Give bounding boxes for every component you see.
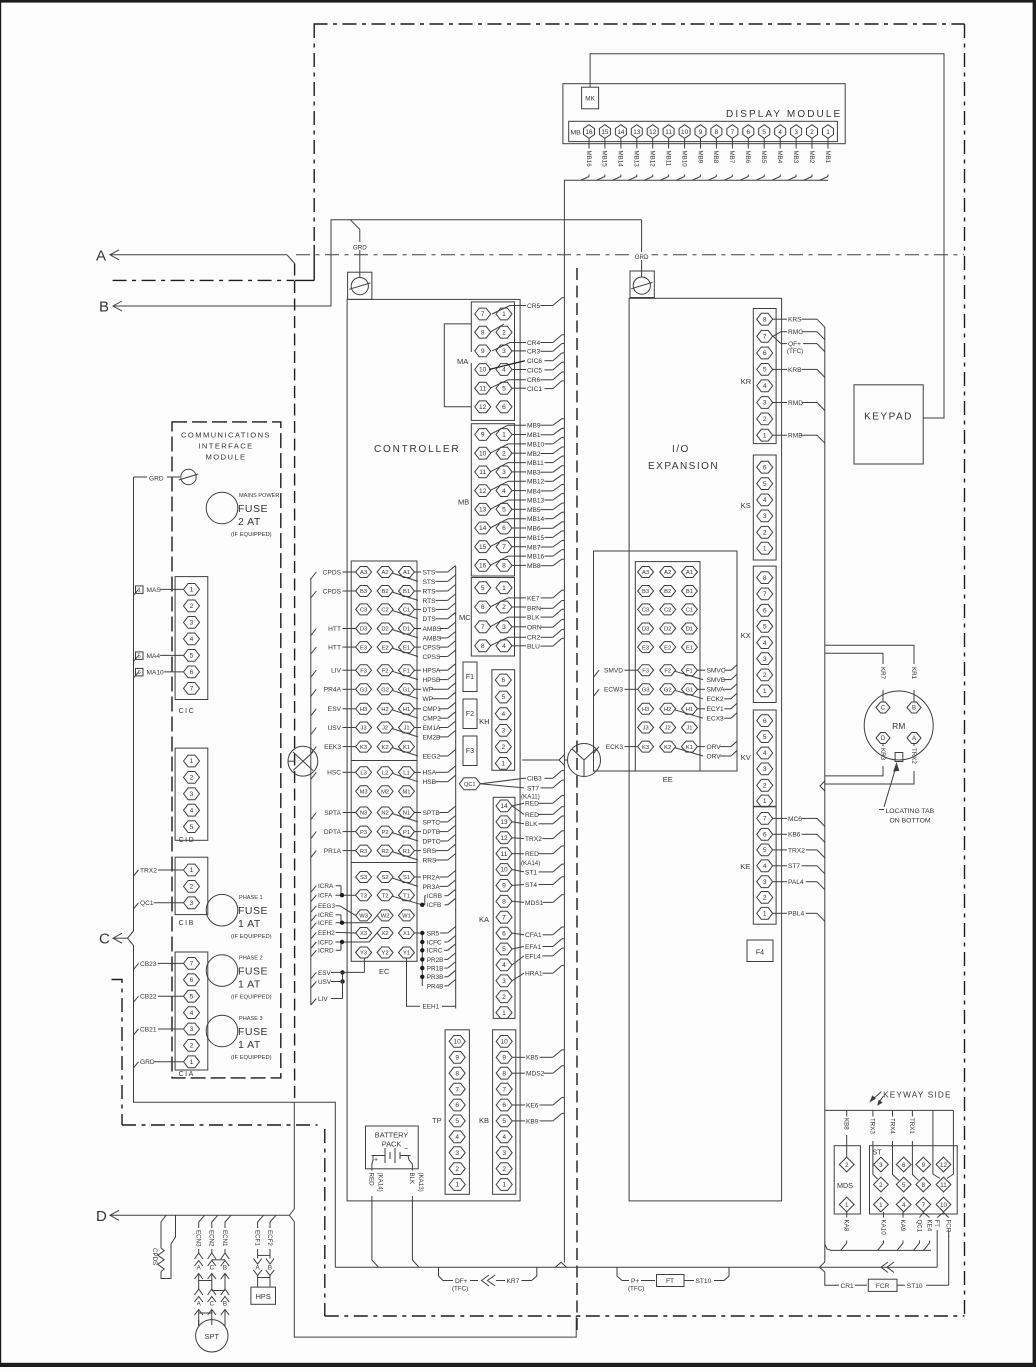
wire: right bus lower to CR1 — [825, 1272, 837, 1285]
wire: C junction upper diagonal — [128, 931, 134, 938]
pin EC-C1 — [399, 604, 415, 615]
svg-text:H1: H1 — [403, 707, 410, 713]
pin MB-10 — [679, 125, 690, 139]
pin KB-3 — [496, 1147, 512, 1159]
svg-text:5: 5 — [763, 847, 767, 854]
svg-text:EEH2: EEH2 — [318, 930, 335, 937]
pin KH-5 — [495, 691, 511, 703]
pin KR-1 — [757, 429, 773, 441]
wire MA8 diag — [490, 324, 504, 332]
svg-text:TRX3: TRX3 — [869, 1118, 876, 1134]
connector EE outline — [635, 562, 700, 771]
loop wire around ST-12 to ST-11 — [932, 1110, 934, 1174]
wire: phantom boundary horizontal near A arrow — [113, 279, 294, 281]
svg-text:9: 9 — [502, 1055, 506, 1062]
svg-text:P2: P2 — [382, 830, 389, 836]
wire: A arrow lead — [110, 254, 287, 256]
svg-text:E2: E2 — [382, 645, 389, 651]
svg-text:EEG2: EEG2 — [423, 753, 441, 760]
wire: outer enclosure dashed bottom edge — [325, 1315, 965, 1317]
wire KR7 to RMC diagonal — [773, 332, 781, 337]
svg-text:ICFA: ICFA — [318, 893, 333, 900]
svg-text:KR: KR — [741, 377, 752, 386]
svg-text:H3: H3 — [360, 707, 367, 713]
svg-text:FUSE: FUSE — [238, 1026, 268, 1038]
pin KR-6 — [757, 347, 773, 359]
pin MB-12 — [475, 485, 491, 497]
svg-text:CID: CID — [179, 837, 196, 844]
svg-text:3: 3 — [190, 1026, 194, 1033]
svg-text:14: 14 — [479, 525, 487, 532]
svg-text:8: 8 — [481, 643, 485, 650]
wire EC E2 diagonal to CPSS — [392, 648, 418, 656]
pin KE-7 — [757, 813, 773, 825]
pin KE-4 — [757, 860, 773, 872]
svg-text:1 AT: 1 AT — [238, 918, 261, 930]
pin CID-3 — [184, 788, 200, 800]
svg-text:2: 2 — [763, 672, 767, 679]
svg-text:PHASE 3: PHASE 3 — [239, 1016, 263, 1022]
svg-text:3: 3 — [763, 879, 767, 886]
svg-text:S3: S3 — [360, 875, 367, 881]
pin EC-W3 — [356, 910, 372, 921]
wire/label HTT (EC E3) — [311, 647, 317, 654]
pin MB-16 — [475, 560, 491, 572]
wire: CIM left bus upper (GRD to C) — [133, 477, 135, 931]
pin KA-9 — [496, 880, 512, 892]
svg-text:KRS: KRS — [788, 317, 802, 324]
pin EE-C1 — [681, 604, 697, 615]
pin MB-4 — [775, 125, 786, 139]
wires MC pins to labels KE7/BRN/BLK/ORN/CR2/BLU — [490, 598, 508, 607]
pin EC-X3 — [356, 928, 372, 939]
svg-text:KB6: KB6 — [788, 832, 801, 839]
svg-text:10: 10 — [681, 129, 689, 136]
svg-text:FT: FT — [666, 1278, 674, 1285]
svg-text:5: 5 — [502, 507, 506, 514]
svg-text:F1: F1 — [686, 668, 693, 674]
RM locating tab — [895, 753, 903, 762]
svg-text:−: − — [404, 1146, 408, 1153]
wires/labels SMVD ECW3 ECK3 (EE left) — [594, 670, 600, 677]
pin CIA-4 — [184, 1007, 200, 1019]
wire: outer enclosure dashed top edge — [314, 23, 965, 25]
wire/label USV (EC J3) — [311, 728, 317, 735]
svg-text:6: 6 — [763, 832, 767, 839]
pin RM-A — [907, 733, 921, 744]
pin KS-1 — [757, 542, 773, 554]
wire MB5 diagonal to bus — [756, 177, 765, 181]
svg-text:2: 2 — [763, 530, 767, 537]
connector CIC outline — [175, 577, 208, 700]
svg-text:ICFE: ICFE — [318, 920, 333, 927]
pin KB-4 — [496, 1131, 512, 1143]
svg-text:9: 9 — [699, 129, 703, 136]
svg-text:CB22: CB22 — [140, 994, 157, 1001]
svg-text:C: C — [210, 1265, 215, 1272]
pin KX-2 — [757, 669, 773, 681]
svg-text:P1: P1 — [403, 830, 410, 836]
pin TP-9 — [449, 1051, 465, 1063]
pin EC-P3 — [356, 826, 372, 837]
svg-text:K2: K2 — [664, 745, 671, 751]
svg-text:F1: F1 — [403, 668, 410, 674]
pin EC-H2 — [377, 703, 393, 714]
svg-text:RMB: RMB — [788, 433, 803, 440]
border frame right — [1033, 0, 1036, 1367]
fuse F1 — [463, 662, 477, 692]
pin ST-4 — [896, 1197, 911, 1212]
svg-text:L3: L3 — [360, 771, 366, 777]
pin KR-8 — [757, 313, 773, 325]
svg-text:3: 3 — [502, 624, 506, 631]
svg-text:BRN: BRN — [527, 606, 541, 613]
pin EC-R2 — [377, 845, 393, 856]
pin CID-1 — [184, 755, 200, 767]
pin EC-P2 — [377, 826, 393, 837]
pin EC-C2 — [377, 604, 393, 615]
svg-text:1: 1 — [763, 432, 767, 439]
pin EC-K1 — [399, 741, 415, 752]
wire MB14 diagonal to bus — [612, 177, 621, 181]
svg-text:11: 11 — [940, 1182, 947, 1189]
svg-text:11: 11 — [665, 129, 672, 136]
svg-text:RM: RM — [892, 721, 905, 731]
pin EE-D1 — [681, 623, 697, 634]
pin KV-3 — [757, 763, 773, 775]
pin EC-F3 — [356, 665, 372, 676]
svg-text:MDS1: MDS1 — [525, 900, 544, 907]
wire/label ECN3 — [199, 1215, 205, 1228]
svg-text:F4: F4 — [756, 950, 764, 957]
svg-text:1: 1 — [502, 311, 506, 318]
svg-text:7: 7 — [763, 334, 767, 341]
svg-text:SMVC: SMVC — [707, 668, 726, 675]
svg-text:BLK: BLK — [525, 821, 538, 828]
pin EE-F3 — [638, 665, 654, 676]
pin KA-12 — [496, 832, 512, 844]
svg-text:12: 12 — [940, 1162, 947, 1169]
hook ICRE to ICFE — [340, 915, 342, 923]
pin TP-3 — [449, 1147, 465, 1159]
pin MB-9 — [475, 429, 491, 441]
pin EC-J1 — [399, 722, 415, 733]
connector KS outline — [753, 455, 776, 560]
wire: bottom horizontal bus — [335, 1266, 937, 1268]
svg-text:C1: C1 — [686, 608, 693, 614]
svg-text:5: 5 — [455, 1118, 459, 1125]
svg-text:5: 5 — [138, 654, 141, 660]
svg-text:D3: D3 — [642, 627, 649, 633]
tie C-B mid — [212, 1290, 225, 1292]
communications interface module dashed outline — [172, 422, 281, 1078]
svg-text:1: 1 — [138, 588, 141, 594]
svg-text:ECN2: ECN2 — [208, 1230, 215, 1247]
svg-text:MA4: MA4 — [147, 653, 161, 660]
wire: A line jog diagonal — [287, 255, 295, 264]
svg-text:CR2: CR2 — [527, 635, 541, 642]
svg-text:6: 6 — [190, 669, 194, 676]
pin EE-G1 — [681, 684, 697, 695]
pin ST-6 — [896, 1157, 911, 1172]
wire: phantom boundary corner lower-left — [112, 980, 123, 1126]
pin KA-8 — [496, 895, 512, 907]
svg-text:MB11: MB11 — [527, 460, 544, 467]
pin ST-8 — [916, 1177, 931, 1192]
wire: phantom line A across page — [296, 254, 964, 256]
svg-text:4: 4 — [763, 383, 767, 390]
chevron arrow on DF+ wire — [482, 1275, 490, 1286]
pin KA-2 — [496, 991, 512, 1003]
svg-text:6: 6 — [763, 718, 767, 725]
svg-text:BATTERY: BATTERY — [375, 1131, 408, 1140]
svg-text:J3: J3 — [361, 726, 367, 732]
wire EC G1 to WP — [415, 688, 422, 690]
wire MB13 drop — [636, 138, 638, 148]
pin EE-F1 — [681, 665, 697, 676]
connector MA outline — [471, 302, 514, 421]
wires QC1 to CIB3 and ST7 — [480, 778, 524, 784]
svg-text:KA10: KA10 — [879, 1220, 886, 1236]
pin TP-8 — [449, 1067, 465, 1079]
svg-text:HSA: HSA — [423, 770, 437, 777]
svg-text:ORN: ORN — [527, 625, 542, 632]
svg-text:(TFC): (TFC) — [628, 1286, 644, 1293]
svg-text:QC1: QC1 — [140, 900, 154, 907]
pin MB-7 — [727, 125, 738, 139]
svg-text:ICFD: ICFD — [318, 939, 333, 946]
svg-text:6: 6 — [502, 1102, 506, 1109]
svg-text:KEYPAD: KEYPAD — [864, 412, 913, 423]
pin EE-D3 — [638, 623, 654, 634]
svg-text:EFL4: EFL4 — [525, 953, 541, 960]
svg-text:6: 6 — [501, 677, 505, 684]
pin KS-4 — [757, 494, 773, 506]
wire EC A2 diagonal to STS — [392, 573, 418, 581]
pin MC-4 — [496, 640, 512, 652]
svg-text:B2: B2 — [664, 589, 671, 595]
svg-text:ICRB: ICRB — [427, 893, 442, 900]
wire: outer enclosure dashed left edge upper — [313, 24, 315, 245]
svg-text:Y3: Y3 — [360, 951, 367, 957]
pin EC-R3 — [356, 845, 372, 856]
svg-text:6: 6 — [190, 977, 194, 984]
pin RM-B — [907, 702, 921, 713]
svg-text:2: 2 — [763, 783, 767, 790]
hook ICRB to ICFB — [424, 896, 426, 905]
pin EC-T1 — [399, 890, 415, 901]
svg-text:6: 6 — [481, 604, 485, 611]
svg-text:DPTC: DPTC — [423, 838, 441, 845]
wire MB14 diagonal — [490, 519, 508, 528]
svg-text:4: 4 — [455, 1134, 459, 1141]
svg-text:FUSE: FUSE — [238, 905, 268, 917]
wire EC B1 to RTS — [415, 590, 422, 592]
svg-text:(IF EQUIPPED): (IF EQUIPPED) — [231, 1055, 272, 1061]
wire: D arrow line — [110, 1214, 289, 1216]
svg-text:ESV: ESV — [318, 970, 332, 977]
svg-text:PR4B: PR4B — [427, 983, 444, 990]
svg-text:4: 4 — [778, 129, 782, 136]
wire EC P1 to DPTB — [415, 831, 422, 833]
pin ST-5 — [896, 1177, 911, 1192]
svg-text:KH: KH — [479, 717, 489, 726]
svg-text:1: 1 — [502, 1010, 506, 1017]
terminal QC1 — [459, 778, 480, 790]
wire MB2 drop — [811, 138, 813, 148]
svg-text:DTS: DTS — [423, 607, 437, 614]
pin EE-K2 — [660, 741, 676, 752]
svg-text:ECK3: ECK3 — [606, 744, 624, 751]
wire: CIM left bus lower to bottom bus — [134, 946, 336, 1268]
pin MB-15 — [599, 125, 610, 139]
wires battery RED / BLK to bottom bus — [372, 1156, 373, 1171]
border frame top — [0, 0, 1036, 3]
pin KB-2 — [496, 1163, 512, 1175]
svg-text:N1: N1 — [403, 811, 410, 817]
svg-text:R3: R3 — [360, 849, 367, 855]
svg-text:MC: MC — [459, 613, 471, 622]
svg-text:KE4: KE4 — [925, 1220, 932, 1232]
svg-text:MB14: MB14 — [527, 516, 545, 523]
svg-text:10: 10 — [500, 867, 508, 874]
svg-text:N3: N3 — [360, 811, 367, 817]
svg-text:M3: M3 — [360, 790, 368, 796]
pin MA-2 — [496, 326, 512, 338]
pin EC-H3 — [356, 703, 372, 714]
svg-text:4: 4 — [502, 367, 506, 374]
wire EC J1 to EM1A — [415, 727, 422, 729]
wire/label PR1A (EC R3) — [311, 851, 317, 858]
svg-text:1: 1 — [190, 867, 194, 874]
bracket return bus y=1250.4 and pin bottom wires — [825, 1244, 931, 1250]
pin EC-W2 — [377, 910, 393, 921]
svg-text:PHASE 2: PHASE 2 — [239, 956, 263, 962]
pin MB-1 — [496, 429, 512, 441]
svg-text:4: 4 — [190, 636, 194, 643]
svg-text:B: B — [912, 706, 916, 712]
svg-text:D1: D1 — [403, 627, 410, 633]
svg-text:MB10: MB10 — [527, 441, 545, 448]
wire MB8 drop — [715, 138, 717, 148]
pin EC-A3 — [356, 567, 372, 578]
svg-text:6: 6 — [902, 1162, 906, 1169]
pin EC-S3 — [356, 872, 372, 883]
wire: vertical x=294 line1 to D — [293, 1102, 295, 1209]
pin KB-1 — [496, 1179, 512, 1191]
pin ST-3 — [874, 1157, 889, 1172]
svg-text:14: 14 — [500, 803, 508, 810]
svg-text:10: 10 — [501, 1039, 509, 1046]
svg-text:B1: B1 — [686, 589, 693, 595]
svg-text:MB7: MB7 — [527, 544, 541, 551]
svg-text:W1: W1 — [402, 914, 411, 920]
wires KB pins to labels KB5 MDS2 KE6 KB9 — [512, 1056, 525, 1058]
svg-text:EM1A: EM1A — [423, 725, 442, 732]
pin KX-6 — [757, 604, 773, 616]
wire CR1 FCR ST10 (bottom right) — [837, 1284, 839, 1286]
svg-text:H2: H2 — [381, 707, 388, 713]
svg-text:MB4: MB4 — [776, 151, 783, 164]
svg-text:H1: H1 — [686, 707, 693, 713]
pin KH-2 — [495, 741, 511, 753]
svg-text:TRX2: TRX2 — [525, 836, 542, 843]
hook ICRD to ICFD — [340, 942, 342, 950]
pin RM-D — [876, 733, 890, 744]
svg-text:KA: KA — [479, 915, 489, 924]
fuse F4 — [747, 940, 773, 962]
svg-text:TRX1: TRX1 — [908, 1118, 915, 1134]
svg-text:RED: RED — [368, 1173, 375, 1187]
svg-text:J2: J2 — [665, 726, 671, 732]
svg-text:5: 5 — [501, 694, 505, 701]
display module connector MB strip outline — [569, 121, 838, 141]
svg-text:EC: EC — [379, 967, 390, 976]
svg-text:MA: MA — [457, 357, 468, 366]
wire/label QC1 (CIB) — [134, 903, 139, 909]
svg-text:SPTB: SPTB — [423, 810, 441, 817]
pin KH-6 — [495, 674, 511, 686]
wire MA11-CR6 diagonal — [490, 380, 508, 388]
pin EC-Y1 — [399, 947, 415, 958]
pin EC-J2 — [377, 722, 393, 733]
svg-text:DF+: DF+ — [455, 1278, 468, 1285]
pin EC-S1 — [399, 872, 415, 883]
wire: main vertical bus x=564 (display to bottom) — [563, 180, 565, 1262]
svg-text:ST10: ST10 — [696, 1278, 712, 1285]
svg-text:QC1: QC1 — [915, 1220, 922, 1233]
svg-text:7: 7 — [763, 816, 767, 823]
wires KR pins to labels KRS RMC QF+ KRB RMD RMB — [773, 318, 787, 320]
pin MB-2 — [496, 447, 512, 459]
wire EC R2 diagonal to RRS — [392, 852, 418, 860]
pin KX-8 — [757, 572, 773, 584]
svg-text:GRD: GRD — [635, 254, 649, 261]
svg-text:G2: G2 — [381, 688, 389, 694]
svg-text:1: 1 — [763, 545, 767, 552]
svg-text:1: 1 — [502, 1182, 506, 1189]
pin TP-1 — [449, 1179, 465, 1191]
svg-text:MK: MK — [585, 96, 595, 103]
wire MB13 diagonal to bus — [628, 177, 637, 181]
pin CIC-6 — [184, 666, 200, 678]
wire MB10 diagonal to bus — [676, 177, 685, 181]
hook ICRA to ICFA — [340, 886, 342, 896]
svg-text:C2: C2 — [664, 608, 671, 614]
keypad box — [854, 385, 923, 464]
svg-text:C2: C2 — [381, 608, 388, 614]
svg-text:GRD: GRD — [140, 1059, 155, 1066]
pin EE-E3 — [638, 642, 654, 653]
pin MA-7 — [475, 308, 491, 320]
wire: enclosure jog horizontal y=280 — [295, 279, 315, 281]
svg-text:8: 8 — [763, 316, 767, 323]
pin EC-M2 — [377, 786, 393, 797]
svg-text:MB2: MB2 — [527, 451, 541, 458]
svg-text:HRA1: HRA1 — [525, 971, 543, 978]
wire MB4 diagonal to bus — [772, 177, 781, 181]
wire/label LIV (EC F3) — [311, 670, 317, 677]
pin MB-10 — [475, 447, 491, 459]
svg-text:EE: EE — [663, 775, 673, 784]
svg-text:BLK: BLK — [527, 615, 540, 622]
svg-text:5: 5 — [763, 734, 767, 741]
pin KA-5 — [496, 943, 512, 955]
pin KX-4 — [757, 637, 773, 649]
pin CIC-3 — [184, 617, 200, 629]
svg-text:9: 9 — [922, 1162, 926, 1169]
svg-text:ECX3: ECX3 — [707, 716, 725, 723]
